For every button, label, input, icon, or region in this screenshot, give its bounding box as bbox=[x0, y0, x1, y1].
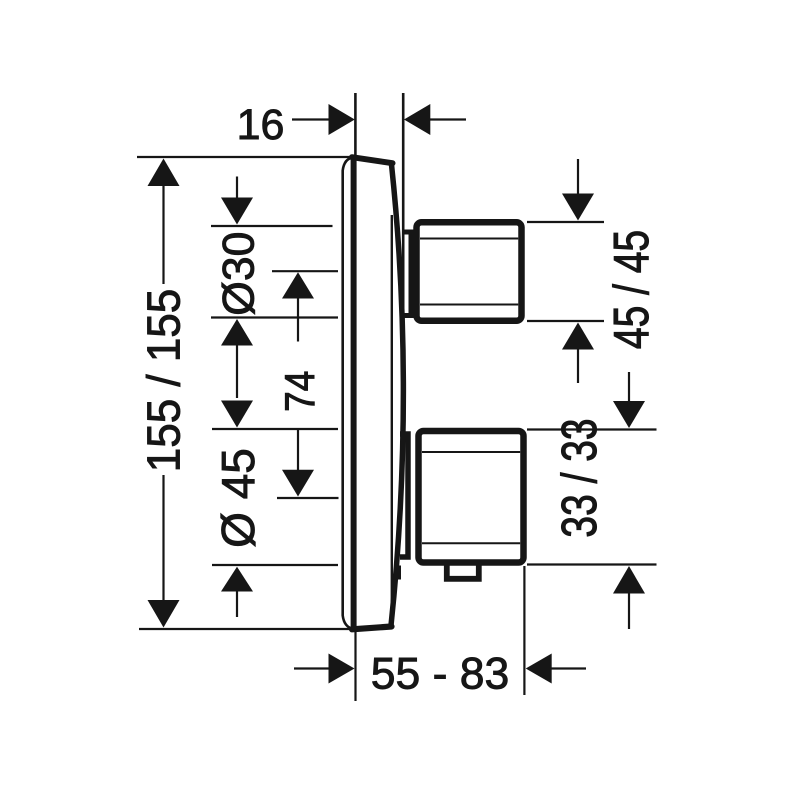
dim 55-83 ext line left bbox=[354, 631, 356, 701]
svg-text:16: 16 bbox=[237, 101, 285, 149]
dim 74 tail upper bbox=[297, 298, 299, 342]
dim 33 ext line top bbox=[527, 428, 657, 430]
dim d45 ext line bottom bbox=[212, 564, 338, 566]
arrow d45 down bbox=[221, 401, 253, 428]
dim 45 tail bottom bbox=[577, 349, 579, 383]
dim 155 line lower seg bbox=[162, 475, 164, 601]
dim 45 ext line bottom bbox=[527, 320, 604, 322]
dim 74 tick top bbox=[272, 270, 338, 272]
bottom knob stem bbox=[400, 434, 408, 557]
arrow 55-83 right bbox=[329, 654, 355, 684]
arrow d30 up bbox=[221, 319, 253, 346]
dim 16 tail right bbox=[429, 118, 466, 120]
plate right edge arc bbox=[391, 165, 403, 626]
dim 33 tail top bbox=[628, 372, 630, 402]
stem stub below bottom knob bbox=[395, 566, 401, 580]
plate top edge bbox=[352, 157, 393, 163]
dim 16 ext line V1 bbox=[354, 93, 357, 157]
arrow 74 down bbox=[282, 470, 314, 497]
arrow 33 up bbox=[613, 566, 645, 594]
arrow 45 up bbox=[562, 323, 594, 350]
dim d30 ext line bottom bbox=[211, 316, 338, 318]
arrow d30 down bbox=[221, 198, 253, 225]
dim 155 line upper seg bbox=[162, 186, 164, 285]
svg-text:Ø30: Ø30 bbox=[215, 232, 264, 316]
bottom knob inner line upper bbox=[422, 451, 520, 453]
dim 74 tick bottom bbox=[277, 497, 339, 499]
dim d30 ext line top bbox=[211, 225, 333, 227]
top knob inner line lower bbox=[420, 304, 518, 306]
dim 45 ext line top bbox=[527, 221, 604, 223]
dim 16 line left bbox=[292, 118, 329, 120]
arrow 55-83 left bbox=[526, 654, 552, 684]
plate left thin contour bbox=[343, 157, 354, 629]
top knob inner line upper bbox=[420, 238, 518, 240]
arrowheads bbox=[148, 104, 646, 684]
svg-text:74: 74 bbox=[277, 371, 324, 412]
dimension graphics: thin lines bbox=[137, 93, 657, 701]
dim 33 tail bottom bbox=[628, 594, 630, 630]
top knob stem bbox=[403, 232, 411, 316]
bottom knob inner line lower bbox=[422, 542, 520, 544]
arrow 45 down bbox=[562, 194, 594, 221]
arrow 33 down bbox=[613, 401, 645, 428]
tab under bottom knob bbox=[447, 565, 479, 579]
svg-text:155 / 155: 155 / 155 bbox=[138, 289, 190, 472]
svg-text:55 - 83: 55 - 83 bbox=[371, 650, 510, 699]
svg-text:33 / 33: 33 / 33 bbox=[553, 418, 607, 537]
plate back edge line bbox=[391, 215, 393, 612]
dim 55-83 tail right bbox=[551, 667, 586, 669]
plate bottom edge bbox=[352, 627, 392, 630]
dim d45 ext line top bbox=[212, 428, 338, 430]
dim 74 tail lower bbox=[297, 429, 299, 470]
dim d30 tail top bbox=[236, 177, 238, 199]
arrow d45 up bbox=[221, 567, 253, 592]
dim 155 ext line bottom bbox=[139, 628, 355, 630]
arrow 155 up bbox=[148, 159, 180, 187]
arrow 155 down bbox=[148, 600, 180, 628]
bottom knob body bbox=[419, 431, 524, 563]
dim 16 ext line V2 bbox=[402, 93, 405, 389]
svg-text:45 / 45: 45 / 45 bbox=[605, 230, 659, 349]
dim 33 ext line bottom bbox=[527, 563, 657, 565]
arrow 16 left bbox=[404, 104, 430, 135]
dim d30-d45 middle tail bbox=[236, 345, 238, 399]
arrow 74 up bbox=[282, 272, 314, 298]
dim 55-83 ext line right bbox=[523, 566, 525, 695]
plate front face line bbox=[351, 158, 357, 628]
dim 55-83 tail left bbox=[294, 667, 329, 669]
dim 45 tail top bbox=[577, 159, 579, 194]
top knob body bbox=[417, 222, 522, 320]
svg-text:Ø 45: Ø 45 bbox=[212, 448, 264, 548]
dim 155 ext line top bbox=[137, 156, 351, 158]
arrow 16 right bbox=[329, 104, 355, 135]
dim d45 tail bottom bbox=[236, 591, 238, 617]
